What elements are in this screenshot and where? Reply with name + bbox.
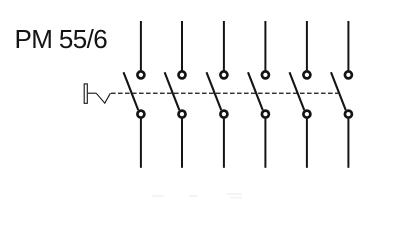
- switch S6 blade: [331, 72, 346, 110]
- switch S5 blade: [290, 72, 305, 110]
- mechanical linkage (dashed wire): [111, 92, 338, 94]
- switch S1 blade: [124, 72, 139, 110]
- switch S5 top terminal wire: [306, 21, 308, 71]
- switch S1 bottom terminal wire: [140, 119, 142, 168]
- switch S3 blade: [207, 72, 222, 110]
- switch S3 bottom contact: [220, 111, 227, 118]
- switch S6 top contact: [345, 71, 352, 78]
- latching device (V notch): [96, 93, 110, 103]
- switch S6 bottom contact: [345, 111, 352, 118]
- actuator plate: [84, 84, 87, 103]
- switch S1 top contact: [137, 71, 144, 78]
- switch S6 top terminal wire: [347, 21, 349, 71]
- faint print artifact: [152, 193, 242, 199]
- switch S4 blade: [248, 72, 263, 110]
- svg-text:PM 55/6: PM 55/6: [15, 24, 108, 54]
- switch S2 top terminal wire: [181, 21, 183, 71]
- switch S6 bottom terminal wire: [347, 119, 349, 168]
- switch S4 top contact: [262, 71, 269, 78]
- switch S3 top contact: [220, 71, 227, 78]
- switch S2 bottom contact: [179, 111, 186, 118]
- switch S2 blade: [165, 72, 180, 110]
- switch S5 top contact: [303, 71, 310, 78]
- switch S5 bottom contact: [303, 111, 310, 118]
- switch S4 bottom terminal wire: [264, 119, 266, 168]
- switch S1 bottom contact: [137, 111, 144, 118]
- switch S4 top terminal wire: [264, 21, 266, 71]
- switch S1 top terminal wire: [140, 21, 142, 71]
- switch S3 top terminal wire: [223, 21, 225, 71]
- switch S2 top contact: [179, 71, 186, 78]
- actuator link wire: [88, 92, 96, 94]
- switch S5 bottom terminal wire: [306, 119, 308, 168]
- switch S4 bottom contact: [262, 111, 269, 118]
- switch S3 bottom terminal wire: [223, 119, 225, 168]
- switch S2 bottom terminal wire: [181, 119, 183, 168]
